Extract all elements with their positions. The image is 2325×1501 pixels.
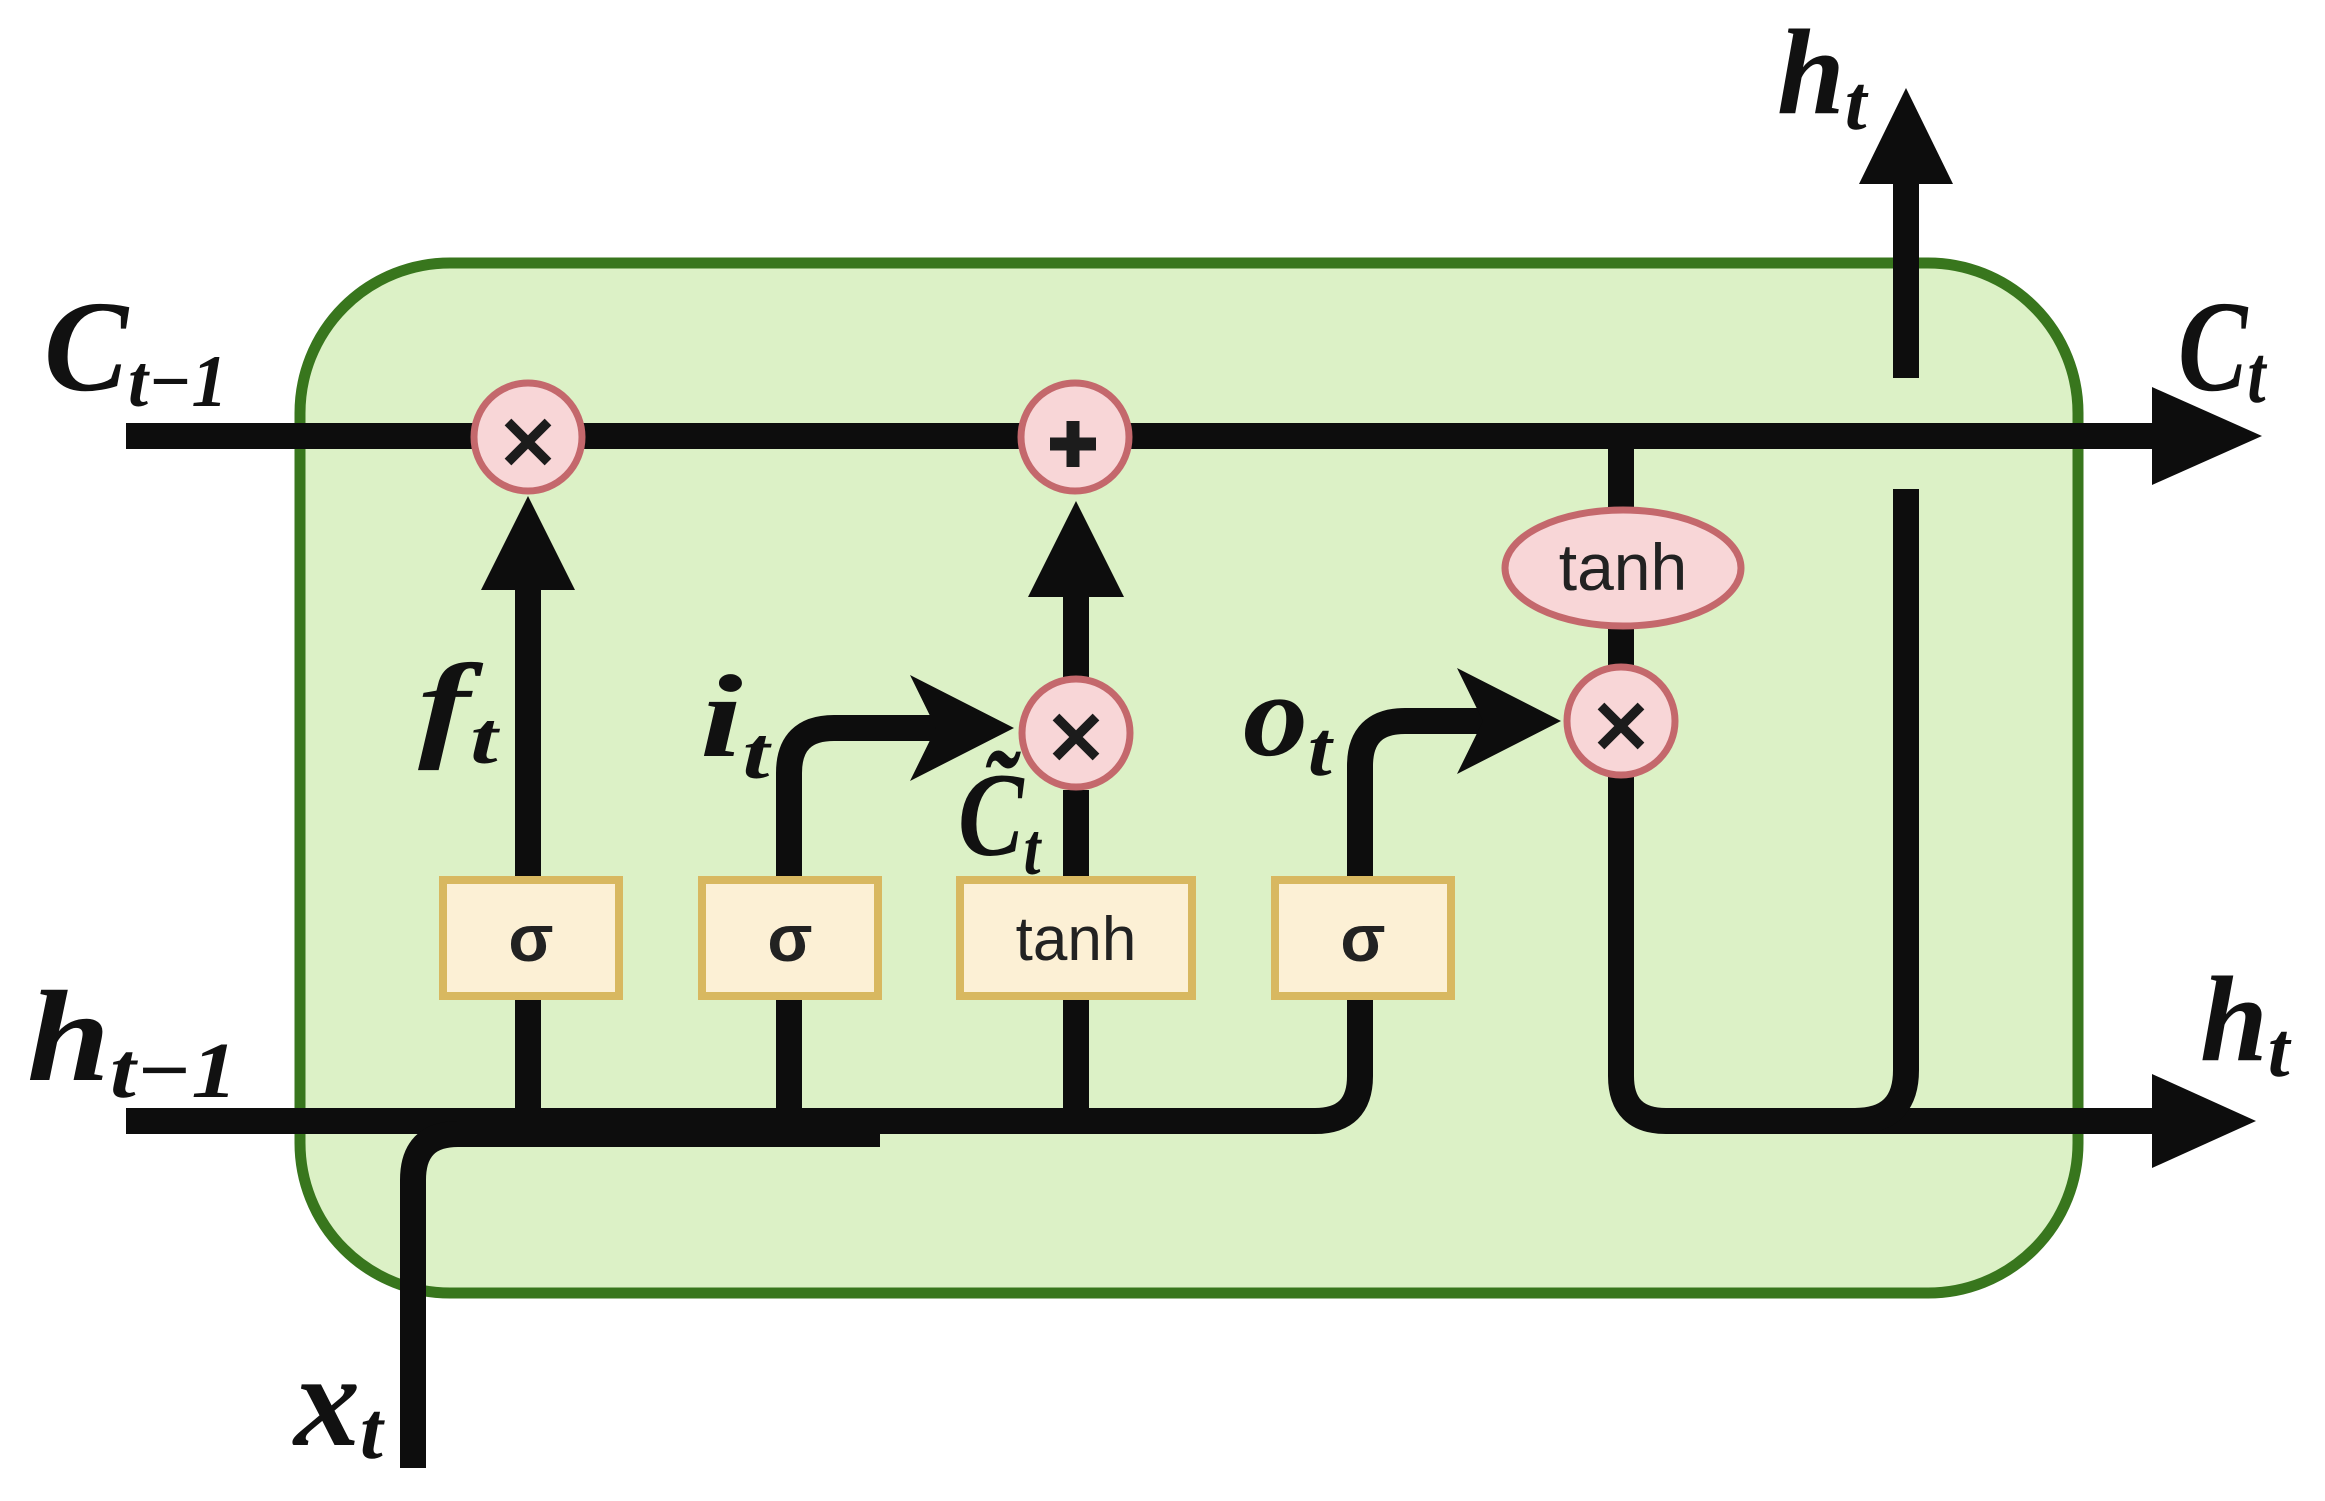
svg-text:tanh: tanh — [1016, 905, 1137, 974]
svg-text:σ: σ — [1340, 901, 1385, 975]
svg-text:σ: σ — [767, 901, 812, 975]
svg-text:σ: σ — [508, 901, 553, 975]
svg-text:tanh: tanh — [1559, 530, 1687, 604]
